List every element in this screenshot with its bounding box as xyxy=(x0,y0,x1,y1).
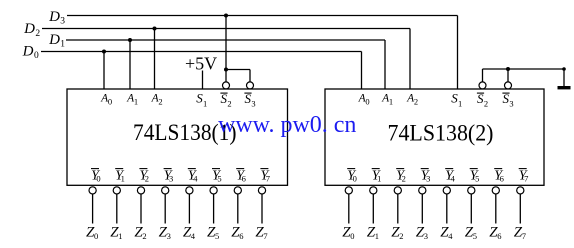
wire U1 Y5 to Z5 xyxy=(213,194,215,223)
wire D0 to U2 A0 xyxy=(361,52,363,90)
wire D3 to U2 S1 xyxy=(457,16,459,90)
svg-text:5: 5 xyxy=(217,174,221,184)
pin U1 A2 xyxy=(151,93,163,107)
wire U2 Y7 to Z7 xyxy=(519,194,521,223)
svg-text:3: 3 xyxy=(426,174,430,184)
svg-text:2: 2 xyxy=(402,174,406,184)
svg-text:1: 1 xyxy=(118,231,122,241)
svg-text:S: S xyxy=(244,91,251,106)
wire U1 Y3 to Z3 xyxy=(164,194,166,223)
pin U1 A0 xyxy=(100,93,112,107)
inverter bubble U1 S3 xyxy=(247,82,254,89)
pin U2 S1 xyxy=(451,91,462,109)
svg-text:0: 0 xyxy=(34,51,39,61)
node Z5 of U2 xyxy=(465,224,477,241)
junction ground corner xyxy=(562,67,566,71)
pin U1 S1 xyxy=(196,91,207,109)
wire down to ground xyxy=(563,69,565,86)
inverter bubble U1 Y5 xyxy=(210,187,217,194)
svg-text:2: 2 xyxy=(145,174,149,184)
wire U1 Y1 to Z1 xyxy=(116,194,118,223)
node Z2 of U2 xyxy=(391,224,403,241)
pin U1 Y5bar xyxy=(212,168,222,183)
svg-text:www. pw0. cn: www. pw0. cn xyxy=(218,112,356,138)
svg-text:1: 1 xyxy=(134,97,138,107)
wire U2 S2-S3 tie to ground xyxy=(483,68,565,70)
svg-text:4: 4 xyxy=(451,174,456,184)
svg-text:6: 6 xyxy=(497,231,501,241)
svg-text:6: 6 xyxy=(239,231,243,241)
wire D1 to U2 A1 xyxy=(384,40,386,89)
pin U2 Y4bar xyxy=(445,168,455,183)
node D3 xyxy=(48,9,65,27)
inverter bubble U2 Y5 xyxy=(468,187,475,194)
watermark www.pw0.cn xyxy=(218,112,356,138)
svg-text:1: 1 xyxy=(389,97,393,107)
pin U2 Y0bar xyxy=(347,168,357,183)
svg-text:2: 2 xyxy=(399,231,403,241)
wire U2 Y0 to Z0 xyxy=(348,194,350,223)
svg-text:S: S xyxy=(502,91,509,106)
pin U2 Y7bar xyxy=(519,168,529,183)
IC U2 74LS138(2) xyxy=(325,89,544,185)
inverter bubble U2 Y3 xyxy=(419,187,426,194)
svg-text:D: D xyxy=(48,32,60,48)
junction D3 branch xyxy=(224,14,228,18)
wire to U1 S3 bubble xyxy=(249,70,251,83)
pin U1 Y2bar xyxy=(139,168,149,183)
svg-text:2: 2 xyxy=(158,97,162,107)
node Z4 of U2 xyxy=(440,224,453,241)
node D0 xyxy=(22,44,39,62)
inverter bubble U2 Y4 xyxy=(443,187,450,194)
wire D1 to U1 A1 xyxy=(129,40,131,89)
inverter bubble U1 Y2 xyxy=(137,187,144,194)
pin U1 Y4bar xyxy=(188,168,198,183)
wire U1 Y7 to Z7 xyxy=(261,194,263,223)
wire D2 to U2 A2 xyxy=(409,29,411,90)
svg-text:3: 3 xyxy=(424,231,428,241)
pin U2 A1 xyxy=(381,93,393,107)
wire U2 Y1 to Z1 xyxy=(372,194,374,223)
svg-text:3: 3 xyxy=(167,231,171,241)
svg-text:3: 3 xyxy=(509,99,513,109)
svg-text:7: 7 xyxy=(522,231,526,241)
svg-text:2: 2 xyxy=(142,231,146,241)
inverter bubble U1 Y4 xyxy=(186,187,193,194)
wire U2 Y3 to Z3 xyxy=(421,194,423,223)
svg-text:S: S xyxy=(477,91,484,106)
inverter bubble U2 Y2 xyxy=(394,187,401,194)
svg-text:1: 1 xyxy=(203,99,207,109)
junction U2 S3 tie xyxy=(506,67,510,71)
svg-text:3: 3 xyxy=(60,17,65,27)
inverter bubble U2 Y7 xyxy=(517,187,524,194)
wire D2 to U1 A2 xyxy=(154,29,156,90)
wire U2 Y4 to Z4 xyxy=(446,194,448,223)
IC U1 74LS138(1) xyxy=(67,89,288,185)
node Z5 of U1 xyxy=(207,224,219,241)
svg-text:0: 0 xyxy=(94,231,98,241)
inverter bubble U1 Y7 xyxy=(258,187,265,194)
pin U1 Y0bar xyxy=(91,168,101,183)
node Z6 of U2 xyxy=(489,224,501,241)
ground xyxy=(558,86,571,89)
pin U2 Y2bar xyxy=(396,168,406,183)
inverter bubble U1 Y0 xyxy=(89,187,96,194)
wire U2 Y6 to Z6 xyxy=(495,194,497,223)
svg-text:+5V: +5V xyxy=(185,54,217,74)
wire U1 Y0 to Z0 xyxy=(92,194,94,223)
svg-text:2: 2 xyxy=(227,99,231,109)
svg-text:D: D xyxy=(23,21,35,37)
wire D0 bus xyxy=(41,51,362,53)
svg-text:7: 7 xyxy=(266,174,270,184)
pin U1 S2bar xyxy=(220,91,231,109)
node D2 xyxy=(23,21,40,39)
wire to U2 S3 bubble xyxy=(507,69,509,82)
inverter bubble U1 Y3 xyxy=(162,187,169,194)
svg-text:7: 7 xyxy=(524,174,528,184)
inverter bubble U2 Y0 xyxy=(345,187,352,194)
wire U1 Y2 to Z2 xyxy=(140,194,142,223)
pin U1 S3bar xyxy=(244,91,255,109)
node Z1 of U2 xyxy=(367,224,379,241)
svg-text:5: 5 xyxy=(215,231,219,241)
inverter bubble U2 Y6 xyxy=(492,187,499,194)
svg-text:0: 0 xyxy=(353,174,357,184)
node Z0 of U1 xyxy=(86,224,98,241)
pin U2 A2 xyxy=(406,93,418,107)
node Z1 of U1 xyxy=(110,224,122,241)
svg-text:4: 4 xyxy=(193,174,198,184)
junction D2/A2 xyxy=(153,27,157,31)
wire D3 down to U1 enable branch xyxy=(225,16,227,70)
svg-text:74LS138(2): 74LS138(2) xyxy=(388,121,494,146)
wire to U1 S2 bubble xyxy=(225,70,227,83)
pin U2 Y6bar xyxy=(494,168,504,183)
wire to U2 S2 bubble xyxy=(482,69,484,82)
node Z7 of U1 xyxy=(255,224,267,241)
svg-text:1: 1 xyxy=(458,99,462,109)
pin U2 S2bar xyxy=(477,91,488,109)
pin U1 Y3bar xyxy=(164,168,174,183)
svg-text:2: 2 xyxy=(414,97,418,107)
wire U1 Y6 to Z6 xyxy=(237,194,239,223)
svg-text:1: 1 xyxy=(375,231,379,241)
node Z7 of U2 xyxy=(514,224,526,241)
svg-text:D: D xyxy=(22,44,34,60)
inverter bubble U1 Y6 xyxy=(234,187,241,194)
node Z0 of U2 xyxy=(342,224,354,241)
svg-text:6: 6 xyxy=(242,174,246,184)
pin U1 Y7bar xyxy=(260,168,270,183)
wire D2 bus xyxy=(42,28,410,30)
svg-text:1: 1 xyxy=(121,174,125,184)
junction D1/A1 xyxy=(128,38,132,42)
inverter bubble U2 S3 xyxy=(505,82,512,89)
svg-text:3: 3 xyxy=(251,99,255,109)
svg-text:2: 2 xyxy=(35,29,40,39)
wire +5V to U1 S1 xyxy=(202,71,204,90)
pin U2 Y5bar xyxy=(470,168,480,183)
svg-text:1: 1 xyxy=(377,174,381,184)
svg-text:6: 6 xyxy=(500,174,504,184)
svg-text:4: 4 xyxy=(191,231,196,241)
svg-text:7: 7 xyxy=(263,231,267,241)
pin U1 Y6bar xyxy=(236,168,246,183)
pin U1 A1 xyxy=(126,93,138,107)
pin U2 Y3bar xyxy=(421,168,431,183)
svg-text:3: 3 xyxy=(169,174,173,184)
power +5V xyxy=(185,54,217,74)
wire D0 to U1 A0 xyxy=(103,52,105,90)
node Z4 of U1 xyxy=(183,224,196,241)
node D1 xyxy=(48,32,65,50)
svg-text:4: 4 xyxy=(448,231,453,241)
wire D1 bus xyxy=(66,39,385,41)
pin U1 Y1bar xyxy=(115,168,125,183)
svg-text:5: 5 xyxy=(475,174,479,184)
svg-text:0: 0 xyxy=(108,97,112,107)
wire D3 bus xyxy=(67,15,458,17)
wire U2 Y2 to Z2 xyxy=(397,194,399,223)
junction U1 S2/S3 tie xyxy=(224,68,228,72)
svg-text:0: 0 xyxy=(365,97,369,107)
svg-text:S: S xyxy=(220,91,227,106)
inverter bubble U1 Y1 xyxy=(113,187,120,194)
inverter bubble U2 Y1 xyxy=(370,187,377,194)
svg-text:0: 0 xyxy=(96,174,100,184)
svg-text:1: 1 xyxy=(60,40,65,50)
svg-text:5: 5 xyxy=(473,231,477,241)
inverter bubble U1 S2 xyxy=(223,82,230,89)
pin U2 A0 xyxy=(358,93,370,107)
wire U2 Y5 to Z5 xyxy=(470,194,472,223)
node Z3 of U1 xyxy=(159,224,171,241)
wire U1 S2-S3 tie xyxy=(226,69,250,71)
pin U2 S3bar xyxy=(502,91,513,109)
label U2 name xyxy=(388,121,494,146)
pin U2 Y1bar xyxy=(372,168,382,183)
node Z2 of U1 xyxy=(134,224,146,241)
svg-text:0: 0 xyxy=(350,231,354,241)
wire U1 Y4 to Z4 xyxy=(188,194,190,223)
node Z3 of U2 xyxy=(416,224,428,241)
junction D0/A0 xyxy=(102,50,106,54)
node Z6 of U1 xyxy=(231,224,243,241)
svg-text:2: 2 xyxy=(484,99,488,109)
label U1 name xyxy=(133,120,237,145)
svg-text:D: D xyxy=(48,9,60,25)
inverter bubble U2 S2 xyxy=(479,82,486,89)
